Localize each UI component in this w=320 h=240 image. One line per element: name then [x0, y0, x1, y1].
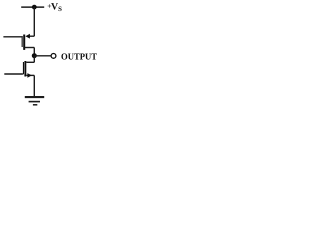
node output junction dot — [32, 53, 37, 58]
transistor Q2 gate bar — [23, 62, 24, 74]
transistor Q1 channel bar — [23, 35, 25, 50]
transistor Q2 (NMOS driver) drain lead — [26, 61, 34, 63]
svg-text:OUTPUT: OUTPUT — [61, 51, 97, 61]
wire top rail — [21, 6, 44, 8]
transistor Q1 drain lead — [25, 47, 34, 49]
wire output node down to Q2 drain — [33, 56, 35, 63]
ground bar 2 — [29, 101, 40, 103]
wire output node to terminal — [34, 55, 50, 57]
wire Q1 drain down to output node — [33, 48, 35, 56]
transistor Q2 source lead — [26, 74, 34, 76]
svg-text:VS: VS — [51, 2, 62, 14]
transistor Q1 gate lead — [3, 36, 21, 38]
transistor Q2 gate lead — [4, 73, 23, 75]
transistor Q1 source arrow (points into channel) — [25, 34, 30, 39]
transistor Q1 gate bar — [22, 36, 23, 47]
transistor Q1 (PMOS load) source lead — [28, 35, 35, 37]
wire from +Vs rail down to Q1 source — [33, 7, 35, 36]
transistor Q2 channel bar — [24, 61, 26, 77]
wire Q2 source down to ground — [33, 75, 35, 96]
ground bar 3 — [33, 104, 37, 106]
transistor Q2 source arrow (points out of channel) — [27, 73, 31, 78]
ground bar 1 — [25, 96, 44, 98]
node supply junction dot — [32, 5, 37, 10]
output terminal open circle — [51, 54, 56, 59]
